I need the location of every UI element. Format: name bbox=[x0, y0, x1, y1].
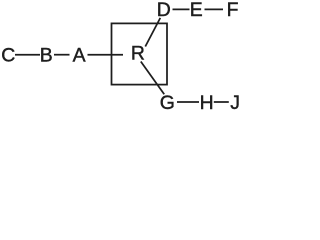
svg-text:H: H bbox=[200, 92, 214, 112]
svg-text:E: E bbox=[190, 0, 203, 21]
svg-text:C: C bbox=[1, 45, 15, 67]
svg-text:F: F bbox=[227, 0, 239, 21]
svg-text:A: A bbox=[73, 45, 86, 67]
svg-text:R: R bbox=[131, 42, 145, 64]
svg-text:B: B bbox=[40, 45, 53, 67]
svg-text:D: D bbox=[157, 0, 171, 21]
svg-text:J: J bbox=[230, 92, 240, 112]
svg-text:G: G bbox=[160, 92, 175, 112]
